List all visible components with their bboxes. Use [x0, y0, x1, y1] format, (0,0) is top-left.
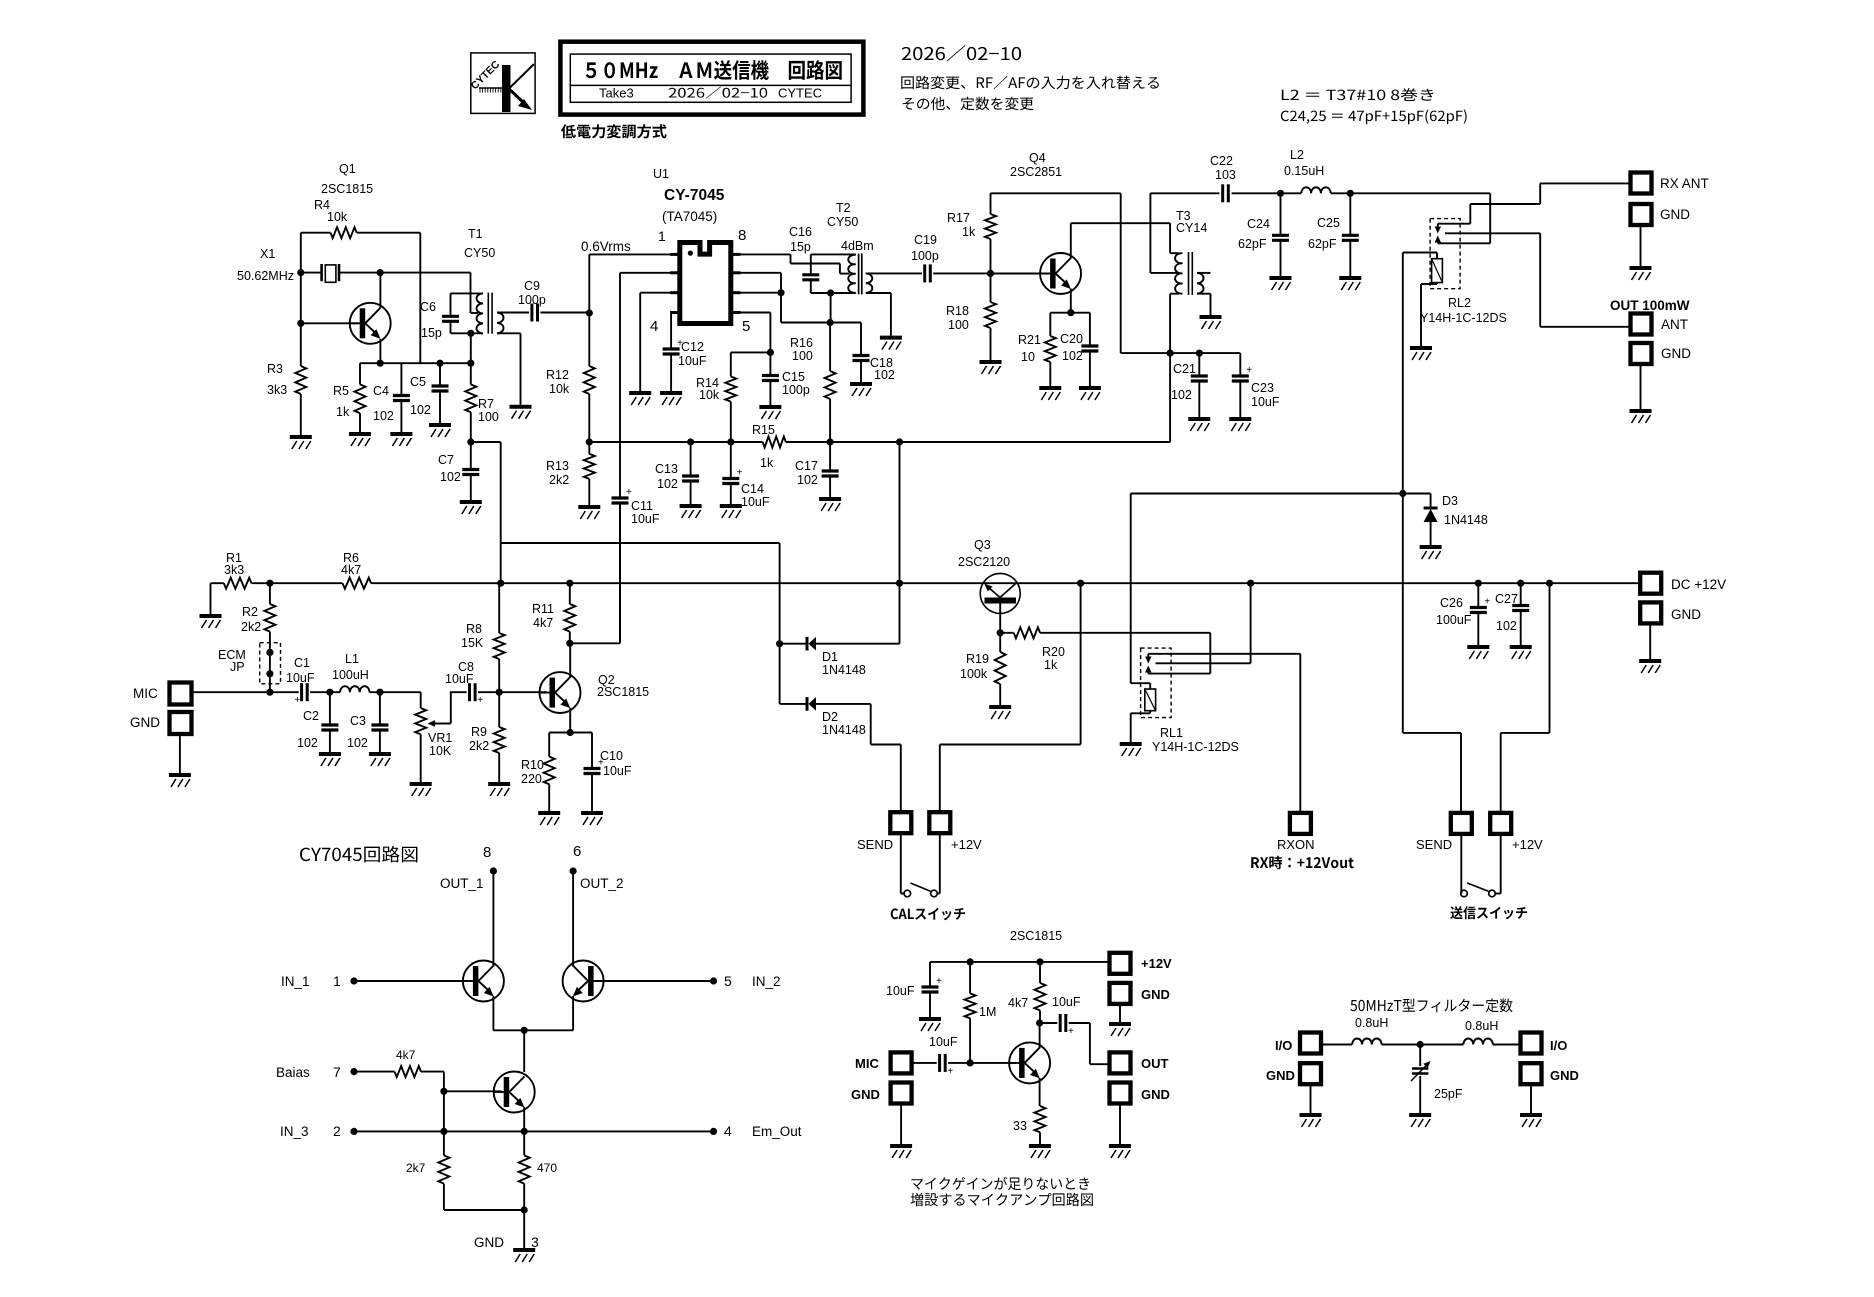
svg-text:15K: 15K [461, 636, 484, 650]
transistor internal B [563, 961, 604, 1031]
svg-text:D1: D1 [822, 650, 838, 664]
title row Take3 2026/02-10 CYTEC [599, 86, 822, 101]
wire internal C base [440, 1088, 501, 1132]
svg-text:102: 102 [1062, 349, 1083, 363]
diode D1 1N4148 [780, 583, 900, 677]
svg-text:I/O: I/O [1550, 1038, 1567, 1053]
ground C17 [819, 499, 841, 511]
svg-text:10uF: 10uF [603, 764, 632, 778]
ground out terminal [1630, 411, 1652, 423]
svg-text:GND: GND [474, 1235, 504, 1250]
svg-text:C26: C26 [1440, 596, 1463, 610]
svg-text:Em_Out: Em_Out [752, 1124, 802, 1139]
svg-text:C17: C17 [795, 459, 818, 473]
ground C24 [1270, 278, 1292, 290]
svg-text:R5: R5 [333, 384, 349, 398]
svg-text:RL1: RL1 [1160, 726, 1183, 740]
terminal RXON [1277, 654, 1315, 852]
svg-text:GND: GND [1550, 1068, 1579, 1083]
svg-text:GND: GND [851, 1087, 880, 1102]
crystal X1 50.62MHz [237, 247, 380, 283]
wire crystal to T1 tap [377, 269, 478, 313]
svg-text:+12V: +12V [951, 837, 982, 852]
capacitor C18 102 [853, 323, 895, 383]
svg-text:2SC1815: 2SC1815 [321, 182, 373, 196]
svg-text:0.8uH: 0.8uH [1465, 1019, 1498, 1033]
C24,25 note [1281, 110, 1467, 125]
mic amp transistor [1009, 1019, 1050, 1106]
capacitor C8 10uF [445, 660, 547, 706]
svg-text:10uF: 10uF [929, 1035, 958, 1049]
wire Q2 emitter node [549, 729, 592, 736]
wire +12V to CAL switch [940, 583, 1081, 812]
svg-text:T1: T1 [468, 227, 483, 241]
svg-text:25pF: 25pF [1434, 1087, 1463, 1101]
svg-text:GND: GND [1141, 987, 1170, 1002]
wire pin3 [640, 293, 670, 391]
svg-text:DC +12V: DC +12V [1671, 577, 1726, 592]
ground T3 [1200, 317, 1222, 329]
svg-text:4k7: 4k7 [1008, 996, 1028, 1010]
svg-text:CYTEC: CYTEC [778, 86, 822, 101]
ground C3 [369, 754, 391, 766]
svg-text:1N4148: 1N4148 [822, 723, 866, 737]
terminal SEND cal [857, 812, 911, 852]
resistor R9 2k2 [469, 692, 505, 782]
svg-text:10k: 10k [327, 210, 348, 224]
svg-text:+12V: +12V [1512, 837, 1543, 852]
svg-text:100p: 100p [911, 249, 939, 263]
svg-text:RX ANT: RX ANT [1660, 176, 1709, 191]
svg-text:IN_2: IN_2 [752, 974, 781, 989]
svg-text:+12V: +12V [1141, 956, 1172, 971]
svg-text:4k7: 4k7 [533, 616, 553, 630]
svg-text:10uF: 10uF [286, 671, 315, 685]
svg-text:GND: GND [1671, 607, 1701, 622]
relay RL2 coil [1403, 253, 1443, 347]
svg-text:CY14: CY14 [1176, 221, 1207, 235]
transistor internal A [463, 961, 504, 1031]
ground R19 [989, 707, 1011, 719]
svg-text:4k7: 4k7 [341, 563, 361, 577]
ground R3 [290, 437, 312, 449]
label TX switch [1450, 906, 1527, 919]
svg-text:ANT: ANT [1661, 317, 1688, 332]
capacitor C11 10uF [612, 487, 660, 643]
svg-text:U1: U1 [653, 167, 669, 181]
ground C10 [581, 813, 603, 825]
svg-text:+: + [626, 487, 632, 498]
svg-text:+: + [1068, 1026, 1074, 1037]
ground mic amp emitter [1029, 1146, 1051, 1158]
capacitor C7 [438, 442, 479, 500]
svg-text:C16: C16 [789, 225, 812, 239]
capacitor C23 10uF [1232, 353, 1280, 417]
label T filter title [1350, 998, 1512, 1012]
ground R18 [980, 362, 1002, 374]
capacitor C10 10uF [584, 733, 632, 812]
wire SEND line down [1403, 494, 1461, 813]
wire RL2 coil to D3 node [1399, 253, 1406, 498]
svg-text:T2: T2 [836, 201, 851, 215]
ground R10 [538, 813, 560, 825]
label 0.6Vrms [581, 239, 631, 254]
resistor R12 [546, 313, 595, 442]
svg-text:D2: D2 [822, 710, 838, 724]
resistor R15 1k [752, 423, 1170, 470]
ground C2 [319, 754, 341, 766]
svg-text:(TA7045): (TA7045) [662, 209, 717, 224]
wire R4 left to crystal node [297, 233, 304, 277]
transistor Q4 2SC2851 [991, 151, 1082, 294]
svg-text:Y14H-1C-12DS: Y14H-1C-12DS [1152, 740, 1239, 754]
svg-text:C22: C22 [1210, 154, 1233, 168]
svg-text:102: 102 [1496, 619, 1517, 633]
capacitor C27 102 [1495, 583, 1529, 645]
capacitor C3 102 [347, 692, 388, 752]
wire R7 node to rail [500, 442, 502, 583]
svg-text:+: + [936, 976, 942, 987]
relay RL1 contact to RXON [1145, 654, 1300, 664]
wire D3 node line [1131, 493, 1431, 495]
mic amp caption line1 [911, 1177, 1089, 1191]
svg-text:102: 102 [874, 368, 895, 382]
wire pin2 [620, 272, 670, 274]
capacitor C1 10uF [286, 656, 340, 706]
ground C4 [390, 434, 412, 446]
capacitor C14 10uF [722, 442, 770, 509]
ground mic terminal [169, 775, 191, 787]
filter terminal I/O left [1275, 1033, 1321, 1054]
svg-text:C11: C11 [631, 499, 653, 513]
svg-text:R15: R15 [752, 423, 775, 437]
terminal DC +12V [1640, 573, 1726, 594]
svg-text:1k: 1k [336, 405, 350, 419]
capacitor C25 62pF [1308, 193, 1359, 276]
relay RL1 contact from R20 [1145, 666, 1151, 674]
resistor R1 3k3 [211, 551, 270, 589]
svg-text:Take3: Take3 [599, 86, 634, 101]
capacitor C5 [410, 363, 449, 423]
terminal ANT out [1631, 314, 1689, 335]
svg-text:2SC2120: 2SC2120 [958, 555, 1010, 569]
wire R1 left to ground [200, 583, 222, 628]
svg-text:VR1: VR1 [428, 731, 452, 745]
wire MIC line [190, 689, 299, 696]
svg-text:C7: C7 [438, 453, 454, 467]
svg-text:1N4148: 1N4148 [1444, 513, 1488, 527]
ground C5 [429, 425, 451, 437]
svg-text:R10: R10 [521, 758, 544, 772]
transistor Q2 2SC1815 [540, 643, 650, 732]
capacitor C17 102 [795, 442, 839, 497]
mic amp resistor 4k7 [1008, 962, 1046, 1023]
svg-text:4dBm: 4dBm [841, 239, 874, 253]
svg-text:100: 100 [478, 410, 499, 424]
transistor internal C [494, 1072, 535, 1132]
svg-text:C12: C12 [681, 340, 704, 354]
wire C16 bottom to T2 primary bottom [811, 289, 856, 296]
svg-text:GND: GND [1141, 1087, 1170, 1102]
wire audio line to D1 D2 [501, 543, 784, 704]
svg-text:1M: 1M [979, 1005, 996, 1019]
wire left bias vertical [300, 273, 302, 366]
ground filter left [1300, 1115, 1322, 1127]
svg-text:8: 8 [483, 844, 491, 861]
mic amp terminal GND top [1110, 983, 1170, 1022]
ground R21 [1039, 388, 1061, 400]
ground filter right [1520, 1115, 1542, 1127]
svg-text:Baias: Baias [276, 1065, 310, 1080]
svg-text:102: 102 [1171, 388, 1192, 402]
mic amp terminal GND out [1110, 1083, 1170, 1145]
terminal +12V tx [1490, 813, 1543, 852]
svg-text:62pF: 62pF [1308, 237, 1337, 251]
ground trimmer [1409, 1115, 1431, 1127]
resistor R5 [333, 363, 366, 432]
svg-text:10uF: 10uF [741, 495, 770, 509]
svg-text:C14: C14 [741, 482, 764, 496]
resistor internal 2k7 [406, 1131, 449, 1210]
ground C20 [1079, 388, 1101, 400]
svg-text:2k7: 2k7 [406, 1161, 426, 1175]
svg-text:+: + [1484, 597, 1490, 608]
filter coil right [1420, 1039, 1520, 1045]
terminal +12V cal [929, 812, 982, 852]
ground R9 [488, 784, 510, 796]
node line C21 C23 [1121, 350, 1241, 357]
IC U1 CY-7045 [653, 167, 741, 324]
L2 note [1282, 88, 1434, 101]
node R7 bottom [467, 438, 501, 445]
svg-text:2SC2851: 2SC2851 [1010, 165, 1062, 179]
svg-text:1N4148: 1N4148 [822, 663, 866, 677]
ground C21 [1188, 419, 1210, 431]
svg-text:2k2: 2k2 [241, 620, 261, 634]
svg-text:62pF: 62pF [1238, 237, 1267, 251]
svg-text:10K: 10K [429, 744, 452, 758]
svg-text:R8: R8 [466, 622, 482, 636]
svg-text:2SC1815: 2SC1815 [597, 685, 649, 699]
transformer T2 CY50 [827, 201, 874, 294]
svg-text:+: + [294, 695, 300, 706]
svg-text:+: + [1246, 365, 1252, 376]
title block [560, 42, 863, 115]
svg-text:GND: GND [1661, 346, 1691, 361]
svg-text:CY50: CY50 [464, 246, 495, 260]
capacitor C13 102 [655, 442, 699, 504]
terminal GND out [1631, 343, 1692, 409]
svg-text:CY-7045: CY-7045 [664, 187, 725, 204]
terminal GND rx [1631, 204, 1691, 266]
ground internal [513, 1250, 535, 1262]
capacitor C24 62pF [1238, 193, 1289, 276]
capacitor C12 10uF [663, 338, 707, 391]
transformer T1 CY50 [451, 227, 504, 363]
svg-text:102: 102 [657, 477, 678, 491]
svg-text:C19: C19 [914, 233, 937, 247]
ground C7 [460, 502, 482, 514]
svg-text:102: 102 [797, 473, 818, 487]
svg-text:100uH: 100uH [332, 668, 369, 682]
svg-text:R11: R11 [532, 602, 554, 616]
wire pin5 node [731, 313, 774, 357]
svg-text:L2: L2 [1290, 148, 1304, 162]
filter terminal GND left [1266, 1063, 1321, 1113]
svg-text:C1: C1 [294, 656, 310, 670]
svg-text:OUT: OUT [1141, 1056, 1169, 1071]
resistor R8 15K [461, 583, 505, 692]
label Q1 2SC1815 [321, 162, 373, 196]
diode D3 1N4148 [1424, 494, 1488, 546]
svg-text:C3: C3 [350, 714, 366, 728]
filter label 0.8uH left [1355, 1016, 1388, 1030]
svg-text:2: 2 [333, 1123, 341, 1139]
wire emitter junction internal [493, 1027, 573, 1072]
wire pin8 to T2 primary tap [741, 254, 850, 273]
svg-text:5: 5 [742, 318, 750, 335]
wire pin4 to C12 [670, 313, 672, 349]
svg-text:10uF: 10uF [678, 354, 707, 368]
wire Q4 emitter node [1050, 289, 1090, 317]
svg-text:10: 10 [1021, 350, 1035, 364]
capacitor C26 100uF [1436, 583, 1490, 645]
wire internal 2k7 to gnd node [444, 1206, 528, 1213]
svg-text:C24: C24 [1247, 217, 1270, 231]
node R2 top [266, 580, 273, 587]
pin 7 Baias [276, 1064, 395, 1080]
svg-text:X1: X1 [260, 247, 275, 261]
wire T2 secondary bottom [866, 293, 891, 336]
capacitor C9 100p [518, 279, 589, 322]
svg-text:10k: 10k [699, 388, 720, 402]
svg-text:I/O: I/O [1275, 1038, 1292, 1053]
svg-text:2SC1815: 2SC1815 [1010, 929, 1062, 943]
svg-text:R7: R7 [478, 397, 494, 411]
svg-text:R13: R13 [546, 459, 569, 473]
pin labels U1 [650, 227, 750, 335]
svg-text:15p: 15p [421, 326, 442, 340]
resistor R17 [947, 193, 996, 273]
resistor R14 [696, 352, 736, 442]
ground T2 [880, 338, 902, 350]
svg-text:2k2: 2k2 [549, 473, 569, 487]
svg-text:102: 102 [373, 409, 394, 423]
svg-text:+: + [477, 695, 483, 706]
svg-text:R16: R16 [790, 336, 813, 350]
mic amp output cap 10uF [1040, 995, 1110, 1064]
label CY7045 schematic [300, 846, 417, 863]
svg-text:102: 102 [297, 736, 318, 750]
mic amp terminal MIC [855, 1052, 912, 1073]
capacitor C2 102 [297, 692, 338, 752]
svg-text:5: 5 [724, 973, 732, 989]
svg-text:SEND: SEND [857, 837, 893, 852]
svg-text:1k: 1k [962, 225, 976, 239]
wire bus to rail [899, 442, 901, 583]
pin 1 IN_1 [281, 973, 463, 989]
svg-text:+: + [947, 1066, 953, 1077]
wire T3 primary bottom to bus [1167, 294, 1180, 442]
svg-text:7: 7 [333, 1064, 341, 1080]
wire R20 to RL1 contact [1148, 633, 1210, 674]
pin 8 OUT_1 [440, 844, 497, 967]
svg-text:33: 33 [1013, 1119, 1027, 1133]
label RL1 [1152, 726, 1239, 754]
resistor R16 [790, 293, 836, 442]
relay RL2 contact from TX [1435, 236, 1441, 244]
ground C26 [1467, 647, 1489, 659]
jumper ECM JP [218, 643, 281, 693]
svg-text:0.15uH: 0.15uH [1284, 164, 1324, 178]
svg-text:C27: C27 [1495, 592, 1518, 606]
mic amp emitter resistor 33 [1013, 1106, 1046, 1144]
svg-text:Q1: Q1 [339, 162, 356, 176]
mic amp cap 10uF left [886, 962, 942, 1017]
wire T1 secondary top [497, 312, 529, 314]
svg-text:220: 220 [521, 772, 542, 786]
terminal GND dc [1640, 602, 1701, 659]
ground T1 [510, 407, 532, 419]
svg-text:C20: C20 [1060, 332, 1083, 346]
date note [902, 45, 1021, 61]
ground D3 [1420, 547, 1442, 559]
svg-text:R18: R18 [946, 304, 969, 318]
svg-text:10uF: 10uF [1251, 395, 1280, 409]
svg-text:R9: R9 [471, 725, 487, 739]
ground C15 [759, 407, 781, 419]
ground mic amp in [890, 1146, 912, 1158]
terminal MIC [133, 683, 192, 705]
node Q4 base [987, 270, 994, 277]
wire T3 tap riser to output [1150, 193, 1179, 273]
resistor R2 2k2 [241, 583, 275, 652]
svg-text:C5: C5 [410, 375, 426, 389]
relay RL2 dashed box [1430, 219, 1460, 289]
ground R5 [349, 434, 371, 446]
wire Q1 base [297, 320, 358, 327]
resistor R10 220 [521, 733, 555, 812]
svg-text:IN_3: IN_3 [280, 1124, 309, 1139]
terminal SEND tx [1416, 813, 1472, 852]
label OUT 100mW [1610, 298, 1690, 313]
svg-text:R19: R19 [966, 652, 989, 666]
ground C13 [680, 506, 702, 518]
relay RL1 coil [1131, 494, 1156, 743]
inductor L1 100uH [332, 652, 421, 696]
ground VR1 [410, 784, 432, 796]
mic amp caption line2 [910, 1193, 1092, 1206]
svg-text:3: 3 [531, 1234, 539, 1250]
wire T3 secondary top stub [1197, 272, 1211, 274]
relay RL2 common [1445, 233, 1630, 326]
wire +12V to TX switch [1501, 583, 1550, 813]
svg-text:1k: 1k [1044, 658, 1058, 672]
switch CAL [901, 834, 940, 897]
mic amp terminal GND in [851, 1083, 912, 1145]
relay RL2 contact to RX [1435, 224, 1471, 234]
ground mic amp top [1109, 1024, 1131, 1036]
svg-text:C15: C15 [782, 370, 805, 384]
terminal RX ANT [1631, 173, 1709, 194]
node Q2 base R8 R9 [496, 689, 503, 696]
wire L2 to relay RL2 [1350, 193, 1490, 243]
wire T3 secondary bottom to ground [1197, 294, 1211, 315]
svg-text:100: 100 [948, 318, 969, 332]
svg-text:470: 470 [537, 1161, 557, 1175]
svg-text:1: 1 [658, 228, 666, 244]
capacitor C16 15p [789, 225, 856, 293]
